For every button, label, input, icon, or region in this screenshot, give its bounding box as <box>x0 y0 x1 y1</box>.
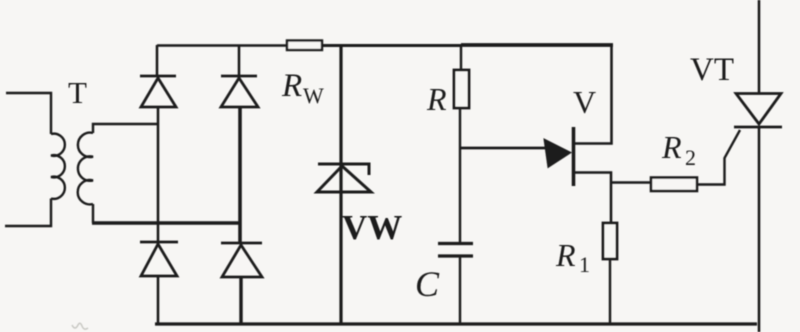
wire top rail right segment (bold) <box>461 43 613 47</box>
wire VT anode from top <box>758 0 761 94</box>
wire top rail middle segment <box>322 44 461 47</box>
wire VT cathode down <box>758 127 761 332</box>
wire VW branch <box>339 46 342 324</box>
resistor RW <box>287 41 322 51</box>
resistor R2 <box>651 178 697 192</box>
diode top-left <box>140 76 176 107</box>
zener diode VW <box>317 164 371 192</box>
diode top-right <box>221 76 258 107</box>
wire to R2 <box>611 181 651 184</box>
svg-text:R: R <box>555 237 576 273</box>
wire C bottom <box>459 256 461 324</box>
diode bottom-right <box>221 243 262 277</box>
wire bottom rail <box>155 322 757 325</box>
diode bottom-left <box>140 242 178 276</box>
transformer T secondary winding <box>78 124 158 223</box>
svg-text:R: R <box>426 81 447 117</box>
stray scan mark <box>72 323 88 329</box>
wire base2 to top rail <box>574 46 612 144</box>
svg-text:W: W <box>303 83 324 108</box>
wire bridge right branch middle (bold) <box>238 107 242 243</box>
thyristor VT <box>734 94 782 128</box>
wire R2 to VT gate <box>697 130 740 185</box>
wire bridge left branch middle <box>157 107 160 242</box>
arrow to transistor emitter <box>459 139 571 168</box>
svg-text:T: T <box>68 75 87 110</box>
wire bridge right branch upper <box>238 46 241 76</box>
transistor V bar <box>572 127 576 186</box>
svg-text:R: R <box>661 129 682 165</box>
capacitor C <box>438 244 473 257</box>
svg-text:VT: VT <box>690 52 734 88</box>
svg-text:1: 1 <box>579 252 590 277</box>
svg-text:C: C <box>415 264 440 304</box>
wire bridge left branch upper <box>156 45 159 76</box>
svg-text:R: R <box>281 68 302 104</box>
wire top rail left segment <box>157 44 287 47</box>
wire bridge right branch lower (bold) <box>239 277 242 324</box>
wire base1 down <box>574 173 611 224</box>
wire secondary bottom to bridge (bold) <box>92 221 240 225</box>
wire bridge left branch lower <box>157 276 160 324</box>
svg-text:VW: VW <box>342 208 402 247</box>
svg-text:2: 2 <box>685 145 696 170</box>
transformer T primary winding <box>5 93 65 226</box>
wire R1 bottom <box>609 259 611 324</box>
wire R branch top <box>460 46 462 70</box>
svg-text:V: V <box>573 84 596 120</box>
resistor R1 <box>603 223 617 259</box>
resistor R <box>454 70 469 108</box>
wire R to C <box>459 108 461 244</box>
